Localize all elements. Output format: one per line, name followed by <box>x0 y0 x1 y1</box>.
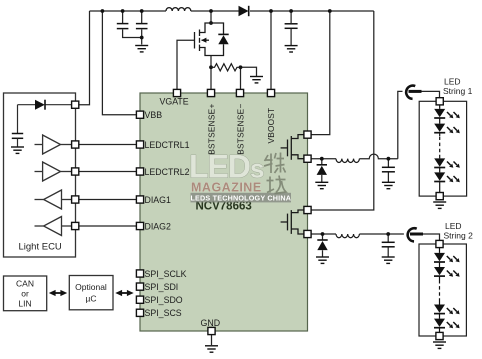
wire: VBOOST pin drop <box>270 11 272 89</box>
svg-text:or: or <box>21 289 29 299</box>
ground (LED string2) <box>433 342 446 348</box>
wire: top supply rail <box>90 10 374 12</box>
ground (input caps) <box>135 46 148 52</box>
ground (channel2 output cap) <box>382 257 395 263</box>
svg-text:LIN: LIN <box>18 299 31 309</box>
svg-text:LED: LED <box>445 221 462 231</box>
svg-text:LEDS TECHNOLOGY CHINA: LEDS TECHNOLOGY CHINA <box>190 193 291 202</box>
capacitor C4 (ECU) <box>12 134 23 139</box>
wire: VGATE to gate of Q1 <box>177 40 195 89</box>
svg-text:SPI_SDO: SPI_SDO <box>145 295 183 305</box>
wire: LED ECU rows <box>79 145 137 227</box>
inductor L2 (channel1) <box>336 159 359 163</box>
wire: channel1 inductor to cap with hop over vertical <box>359 154 397 159</box>
ground (ECU cap) <box>11 147 24 153</box>
svg-text:VBOOST: VBOOST <box>266 108 276 144</box>
op-amp A2 (LEDCTRL2 driver) <box>35 162 73 181</box>
ground (sense resistor) <box>250 77 263 83</box>
wire: channel2 freewheel diode lead <box>322 234 324 257</box>
bidirectional arrow (uC to SPI) <box>115 290 133 296</box>
IC pin squares left <box>136 111 143 118</box>
svg-text:µC: µC <box>85 294 96 304</box>
LED light arrows string2 <box>447 256 453 262</box>
svg-text:String 1: String 1 <box>443 86 473 96</box>
CAN or LIN box <box>4 276 47 311</box>
diode D3 (channel1 freewheel) <box>317 165 327 175</box>
wire: channel1 feedback riser to LED string 1 <box>398 91 440 158</box>
wire: channel1 output cap leads <box>387 159 389 182</box>
diode D4 (channel2 freewheel) <box>317 240 327 250</box>
bidirectional arrow (CAN to uC) <box>49 290 67 296</box>
wire: channel2 switch node <box>311 233 336 235</box>
wire: boost MOSFET drain drop <box>210 11 212 23</box>
wire: input cap C1 leads <box>123 11 142 38</box>
diode D2 (Q1 body diode) <box>211 23 229 56</box>
inductor L1 (top rail) <box>166 8 191 11</box>
svg-text:LEDCTRL2: LEDCTRL2 <box>145 167 190 177</box>
svg-text:LED: LED <box>444 77 461 87</box>
IC pin squares top <box>173 89 180 96</box>
ground (IC GND pin) <box>205 346 218 352</box>
wire: Q1 source to sense network <box>210 56 212 90</box>
LED D7 <box>434 124 445 132</box>
svg-text:VBB: VBB <box>145 110 163 120</box>
ground (channel1 freewheel diode) <box>315 182 328 188</box>
svg-text:BSTSENSE−: BSTSENSE− <box>236 103 246 154</box>
watermark LEDs MAGAZINE <box>189 149 291 203</box>
svg-text:MAGAZINE: MAGAZINE <box>191 180 262 194</box>
IC pin square bottom GND <box>208 327 215 334</box>
svg-text:DIAG1: DIAG1 <box>145 195 172 205</box>
LED D12 <box>434 305 445 313</box>
LED D11 <box>434 267 445 275</box>
wire: channel1 freewheel diode lead <box>321 159 323 182</box>
svg-text:LEDCTRL1: LEDCTRL1 <box>145 140 190 150</box>
wire: GND pin drop <box>211 335 213 345</box>
LED D13 <box>434 319 445 327</box>
svg-text:BSTSENSE+: BSTSENSE+ <box>207 103 217 154</box>
LED D10 <box>434 253 445 261</box>
transistor Q1 (boost switch) <box>195 23 212 56</box>
svg-text:LEDs: LEDs <box>189 149 264 185</box>
wire: channel1 switch node <box>311 158 336 160</box>
capacitor C1 <box>117 24 129 29</box>
LED D9 <box>434 172 445 180</box>
svg-text:VGATE: VGATE <box>160 97 189 107</box>
svg-text:SPI_SCLK: SPI_SCLK <box>145 269 187 279</box>
channel1 MOSFET Q2 <box>281 135 304 160</box>
Light ECU box <box>4 93 76 257</box>
IC pin squares right <box>304 131 311 138</box>
current loop clamp (channel2) <box>406 227 423 242</box>
wire: channel2 inductor to clamp <box>359 234 439 240</box>
svg-text:Optional: Optional <box>75 282 107 292</box>
svg-text:Light ECU: Light ECU <box>19 242 62 253</box>
LED string 2 box <box>419 244 466 336</box>
wire: sense resistor right to BSTSENSE- and ground <box>241 67 257 89</box>
wire: VBOOST feed to channel2 with corner <box>311 11 374 210</box>
LED chain string1 <box>439 105 441 193</box>
pins LED string2 <box>436 240 443 247</box>
pins LED string1 <box>436 98 443 105</box>
LED chain string2 <box>439 248 441 333</box>
wire: input cap C2 leads <box>141 11 143 45</box>
channel2 MOSFET Q3 <box>281 210 304 234</box>
ground (channel1 output cap) <box>382 182 395 188</box>
capacitor C3 (boost output) <box>285 24 298 29</box>
LED light arrows string1 <box>447 112 453 118</box>
svg-text:String 2: String 2 <box>444 231 474 241</box>
node squares on ECU edge <box>72 101 79 108</box>
svg-text:SPI_SDI: SPI_SDI <box>145 282 179 292</box>
wire: channel2 output cap leads <box>387 234 389 257</box>
Optional uC box <box>69 276 113 310</box>
IC U1 NCV78663 body <box>140 93 308 331</box>
wire: channel1 drain riser <box>311 11 330 135</box>
op-amp A4 (DIAG2 receiver) <box>35 217 73 236</box>
svg-text:CAN: CAN <box>16 279 34 289</box>
current loop clamp (channel1) <box>405 84 422 99</box>
wire: rail left drop to Light ECU node <box>79 11 90 105</box>
LED D6 <box>434 109 445 117</box>
resistor R1 (current sense) <box>211 64 240 71</box>
ground (channel2 freewheel diode) <box>316 257 329 263</box>
capacitor C2 <box>136 24 148 29</box>
ground (boost output cap) <box>285 46 298 52</box>
svg-text:SPI_SCS: SPI_SCS <box>145 308 182 318</box>
inductor L3 (channel2) <box>336 234 359 238</box>
ground (LED string1) <box>433 202 446 208</box>
LED D8 <box>434 158 445 166</box>
op-amp A3 (DIAG1 receiver) <box>35 190 73 209</box>
wire: boost output cap lead <box>290 11 292 45</box>
capacitor C6 (channel2 output) <box>382 242 395 247</box>
diode D5 (ECU series diode) <box>18 100 73 133</box>
svg-text:DIAG2: DIAG2 <box>145 221 172 231</box>
op-amp A1 (LEDCTRL1 driver) <box>35 135 73 154</box>
capacitor C5 (channel1 output) <box>382 167 395 172</box>
LED string 1 box <box>419 101 466 196</box>
diode D1 (boost rectifier) <box>239 6 249 16</box>
svg-text:GND: GND <box>201 318 221 328</box>
wire: VBB branch <box>102 11 136 115</box>
